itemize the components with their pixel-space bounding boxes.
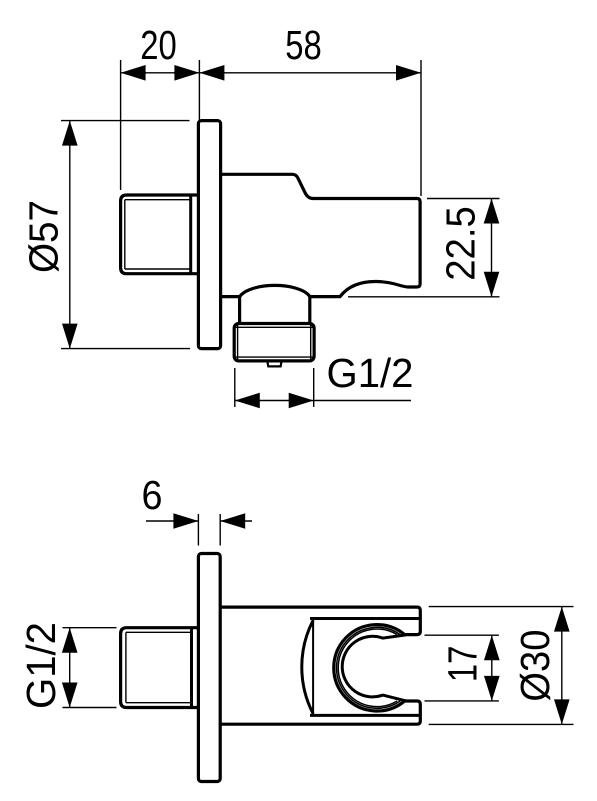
svg-text:Ø57: Ø57 [21,200,67,273]
threaded inlet nipple outline (plan) [121,628,199,708]
arrow G1/2 bottom (plan) [62,683,78,708]
dimension 20 extension line left [120,60,122,190]
arrow Ø57 bottom [62,324,78,349]
dimension line 17 [491,635,493,701]
dimension Ø57 bottom extension line [61,348,190,350]
holder bracket bottom edge [310,714,420,717]
svg-text:6: 6 [142,472,163,518]
dimension line Ø30 [561,607,563,725]
holder cup inner circle (open right) [342,635,406,701]
nipple shoulder line [189,195,192,274]
dimension G1/2 extension line left [234,368,236,407]
arrow 6 right [220,513,245,529]
svg-text:22.5: 22.5 [438,206,484,281]
arrow G1/2 right [289,393,314,409]
svg-text:Ø30: Ø30 [512,630,558,702]
wall plate (side view) [198,121,220,349]
body outline with C-clip cut (plan) [220,607,420,724]
nipple thread relief lines [125,200,191,269]
dimension G1/2 extension line right [313,368,315,407]
body outline with holder bump [221,174,421,296]
arrow 58 right [396,65,421,81]
outlet nut [234,324,314,361]
arrow 22.5 bottom [484,272,500,297]
dimension line 20/58 [121,72,421,74]
dimension 17 extension lines [425,634,499,636]
arrow 6 left [173,513,198,529]
holder bracket top edge [310,617,420,620]
nut inner detail lines [236,324,313,360]
svg-text:58: 58 [285,22,322,68]
svg-text:17: 17 [440,646,486,683]
holder lens bump arc [302,620,313,713]
arrow Ø30 bottom [554,699,570,724]
holder lens chord [312,620,314,715]
dimension 22.5 top extension line [427,198,500,200]
nipple thread relief lines (plan) [126,632,192,702]
arrow 22.5 top [484,199,500,224]
arrow 20 left [121,65,146,81]
wall plate (plan view) [198,554,220,782]
outlet neck sides [238,296,241,323]
svg-text:G1/2: G1/2 [327,350,414,396]
dimension line G1/2 (plan) [69,628,71,708]
arrow 17 bottom [484,676,500,701]
arrow 17 top [484,635,500,660]
dimension 20/58 shared extension line [198,60,200,120]
svg-text:20: 20 [140,22,177,68]
C-ring middle arcs [337,627,401,708]
dimension 58 extension line right [420,60,422,196]
dimension line 6 (outside arrows) [146,520,198,522]
outlet nub [267,361,281,367]
arrow G1/2 left [235,393,260,409]
arrow 20 right [174,65,199,81]
arrow Ø57 top [62,121,78,146]
arrow Ø30 top [554,607,570,632]
nipple shoulder line (plan) [190,628,193,708]
dimension G1/2 (plan) extension lines [63,627,117,629]
dimension 22.5 bottom extension line [348,296,500,298]
dimension line Ø57 [69,121,71,349]
svg-text:G1/2: G1/2 [18,622,64,709]
dimension Ø30 extension lines [429,606,574,608]
arrow 58 left [199,65,224,81]
dimension Ø57 top extension line [61,120,190,122]
arrow G1/2 top (plan) [62,628,78,653]
dimension 6 extension lines [197,514,199,546]
dimension line 22.5 [491,199,493,297]
threaded inlet nipple outline [121,195,199,274]
dimension line G1/2 with leader [235,400,411,402]
